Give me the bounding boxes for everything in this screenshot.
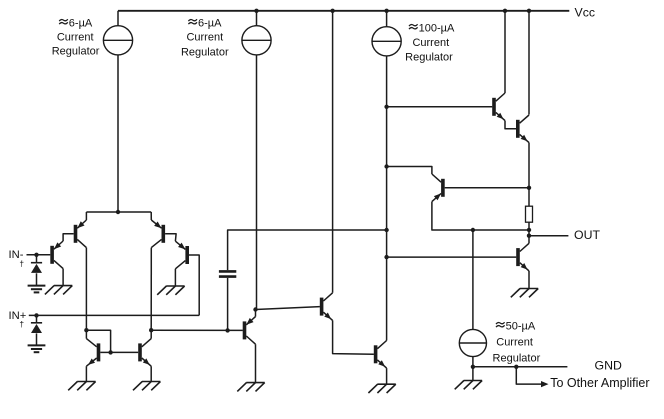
transistor Q1 [50, 246, 54, 264]
wire I3 top [386, 11, 388, 27]
svg-text:6-µA: 6-µA [69, 17, 93, 29]
transistor Q7 [243, 321, 247, 339]
svg-text:Current: Current [496, 336, 533, 348]
diode D1 [31, 262, 42, 264]
current regulator I2 [242, 26, 271, 55]
node Q7 emitter junction [253, 307, 257, 311]
svg-text:100-µA: 100-µA [419, 22, 455, 34]
svg-text:Regulator: Regulator [405, 51, 453, 63]
wire D2 to ground [36, 333, 38, 345]
node OUT junction [527, 234, 531, 238]
wire Q2 base to Q1 emitter [63, 234, 74, 241]
svg-text:Regulator: Regulator [181, 47, 229, 59]
wire Q11 emitter down [528, 143, 530, 188]
wire Q4 collector down [174, 269, 176, 286]
wire bus to Q13 base [387, 256, 517, 258]
wire Q6 emitter to ground [150, 366, 152, 381]
wire I2 to Q7 emitter node [256, 55, 258, 310]
node Q5 base junction [108, 350, 112, 354]
wire D1 to ground [36, 273, 38, 285]
wire IN+ line [29, 314, 199, 316]
svg-text:Current: Current [57, 32, 94, 44]
svg-text:Regulator: Regulator [52, 45, 100, 57]
wire R1 to OUT node [528, 222, 530, 236]
wire Q5 emitter to ground [85, 366, 87, 381]
svg-text:GND: GND [595, 358, 622, 372]
ground Q4 collector [166, 285, 184, 287]
node Q12 collector tap [384, 164, 388, 168]
svg-text:50-µA: 50-µA [506, 320, 536, 332]
ground D2 [28, 344, 46, 346]
node Q13 base tap [384, 255, 388, 259]
current regulator I1 [103, 26, 132, 55]
wire Q12 base [445, 187, 529, 189]
svg-text:OUT: OUT [574, 228, 600, 242]
wire I2 top [256, 11, 258, 26]
node tail junction [116, 210, 120, 214]
wire IN+ to D2 [36, 315, 38, 322]
svg-text:Current: Current [186, 32, 223, 44]
wire Q2 collector down [85, 248, 87, 331]
transistor Q3 [162, 225, 166, 243]
label I3 line1 [409, 24, 418, 26]
svg-text:Current: Current [412, 37, 449, 49]
wire Q12 emitter down [432, 202, 529, 230]
wire rail to Q8 collector [332, 11, 334, 293]
ground Q9 [377, 383, 395, 385]
current regulator I4 [459, 329, 486, 356]
capacitor C1 top plate [219, 270, 236, 273]
wire Q8 emitter to Q9 base [333, 320, 374, 354]
svg-text:Vcc: Vcc [575, 5, 596, 19]
node other-amp branch junction [514, 365, 518, 369]
wire mirror base rail [100, 351, 110, 353]
wire Q5 collector [85, 330, 87, 338]
svg-text:To Other Amplifier: To Other Amplifier [550, 376, 649, 390]
wire C1 bottom [227, 278, 229, 331]
wire mirror output to Q7 base [151, 329, 243, 331]
node IN- diode junction [34, 253, 38, 257]
wire Q7 collector to ground [255, 344, 257, 382]
wire Q9 emitter to ground [386, 368, 388, 384]
node Q5 collector junction [84, 328, 88, 332]
wire Q3 base to Q4 emitter [165, 234, 176, 241]
svg-text:†: † [19, 319, 24, 329]
wire tail horizontal [86, 211, 151, 213]
transistor Q5 [97, 343, 101, 361]
node IN+ diode junction [34, 313, 38, 317]
label I1 line1 [59, 19, 68, 21]
wire I1 top [117, 11, 119, 26]
transistor Q11 [516, 120, 520, 138]
svg-text:Regulator: Regulator [493, 353, 541, 365]
transistor Q2 [74, 225, 78, 243]
ground D1 [28, 285, 46, 287]
ground Q6 [142, 381, 160, 383]
wire Q4 base to IN+ line [189, 255, 199, 315]
wire I1 to tail [117, 55, 119, 212]
wire I4 bottom [472, 357, 474, 367]
label I4 line1 [496, 322, 505, 324]
diode D2 [31, 322, 42, 324]
wire IN- to Q1 base [27, 254, 51, 256]
ground I4 [464, 380, 482, 382]
transistor Q4 [185, 246, 189, 264]
transistor Q6 [138, 343, 142, 361]
wire Q5 base to Q6 base [111, 351, 139, 353]
node I4 tap [471, 228, 475, 232]
wire GND line [473, 366, 568, 368]
node I3 rail junction [384, 9, 388, 13]
wire tail to Q2 emitter [85, 212, 87, 220]
wire to other amplifier [516, 367, 541, 384]
ground Q1 collector [54, 285, 72, 287]
wire C1 top to comp node [228, 230, 387, 270]
node Q8 collector rail junction [330, 9, 334, 13]
wire tail to Q3 emitter [150, 212, 152, 220]
node C1 bottom junction [225, 328, 229, 332]
node Q6 collector junction [149, 328, 153, 332]
node I2 rail junction [254, 9, 258, 13]
wire Vcc rail [118, 10, 569, 12]
node I4 ground junction [471, 365, 475, 369]
node resistor bottom junction [527, 228, 531, 232]
wire Q3 collector down [150, 248, 152, 331]
wire bus to Q10 base [387, 106, 493, 108]
transistor Q13 [516, 248, 520, 266]
svg-text:6-µA: 6-µA [198, 17, 222, 29]
wire I3 bus [386, 56, 388, 341]
current regulator I3 [372, 27, 401, 56]
wire Q12 base junction to R1 [528, 188, 530, 206]
arrow to other amplifier [541, 381, 549, 387]
ground Q13 [520, 288, 538, 290]
wire Q7 emitter node to Q8 base [256, 307, 320, 310]
node Q11 collector rail junction [527, 9, 531, 13]
node Q10 base tap [384, 105, 388, 109]
wire rail to Q11 collector [528, 11, 530, 115]
wire Q6 collector [150, 330, 152, 338]
transistor Q9 [374, 345, 378, 363]
wire Q7 emitter up [255, 310, 257, 317]
transistor Q12 [441, 179, 445, 197]
resistor R1 [526, 206, 533, 222]
ground Q5 [77, 381, 95, 383]
wire Q10 emitter to Q11 base [505, 121, 516, 129]
wire IN- to D1 [36, 255, 38, 263]
wire Q5 diode link [86, 330, 110, 352]
label I2 line1 [188, 19, 197, 21]
node comp line junction [384, 228, 388, 232]
wire OUT [529, 235, 568, 237]
node Q10 collector rail junction [503, 9, 507, 13]
transistor Q10 [492, 98, 496, 116]
wire Q1 collector down [62, 269, 64, 286]
wire I4 top [472, 230, 474, 329]
wire bus to Q12 collector [387, 167, 432, 175]
capacitor C1 bottom plate [219, 275, 236, 278]
svg-text:†: † [19, 259, 24, 269]
wire I4 to ground [472, 367, 474, 381]
wire Q13 emitter to ground [528, 271, 530, 289]
node Q12 base junction [527, 186, 531, 190]
transistor Q8 [320, 298, 324, 316]
wire Q13 collector up [528, 236, 530, 244]
wire rail to Q10 collector [504, 11, 506, 93]
ground Q7 [246, 382, 264, 384]
